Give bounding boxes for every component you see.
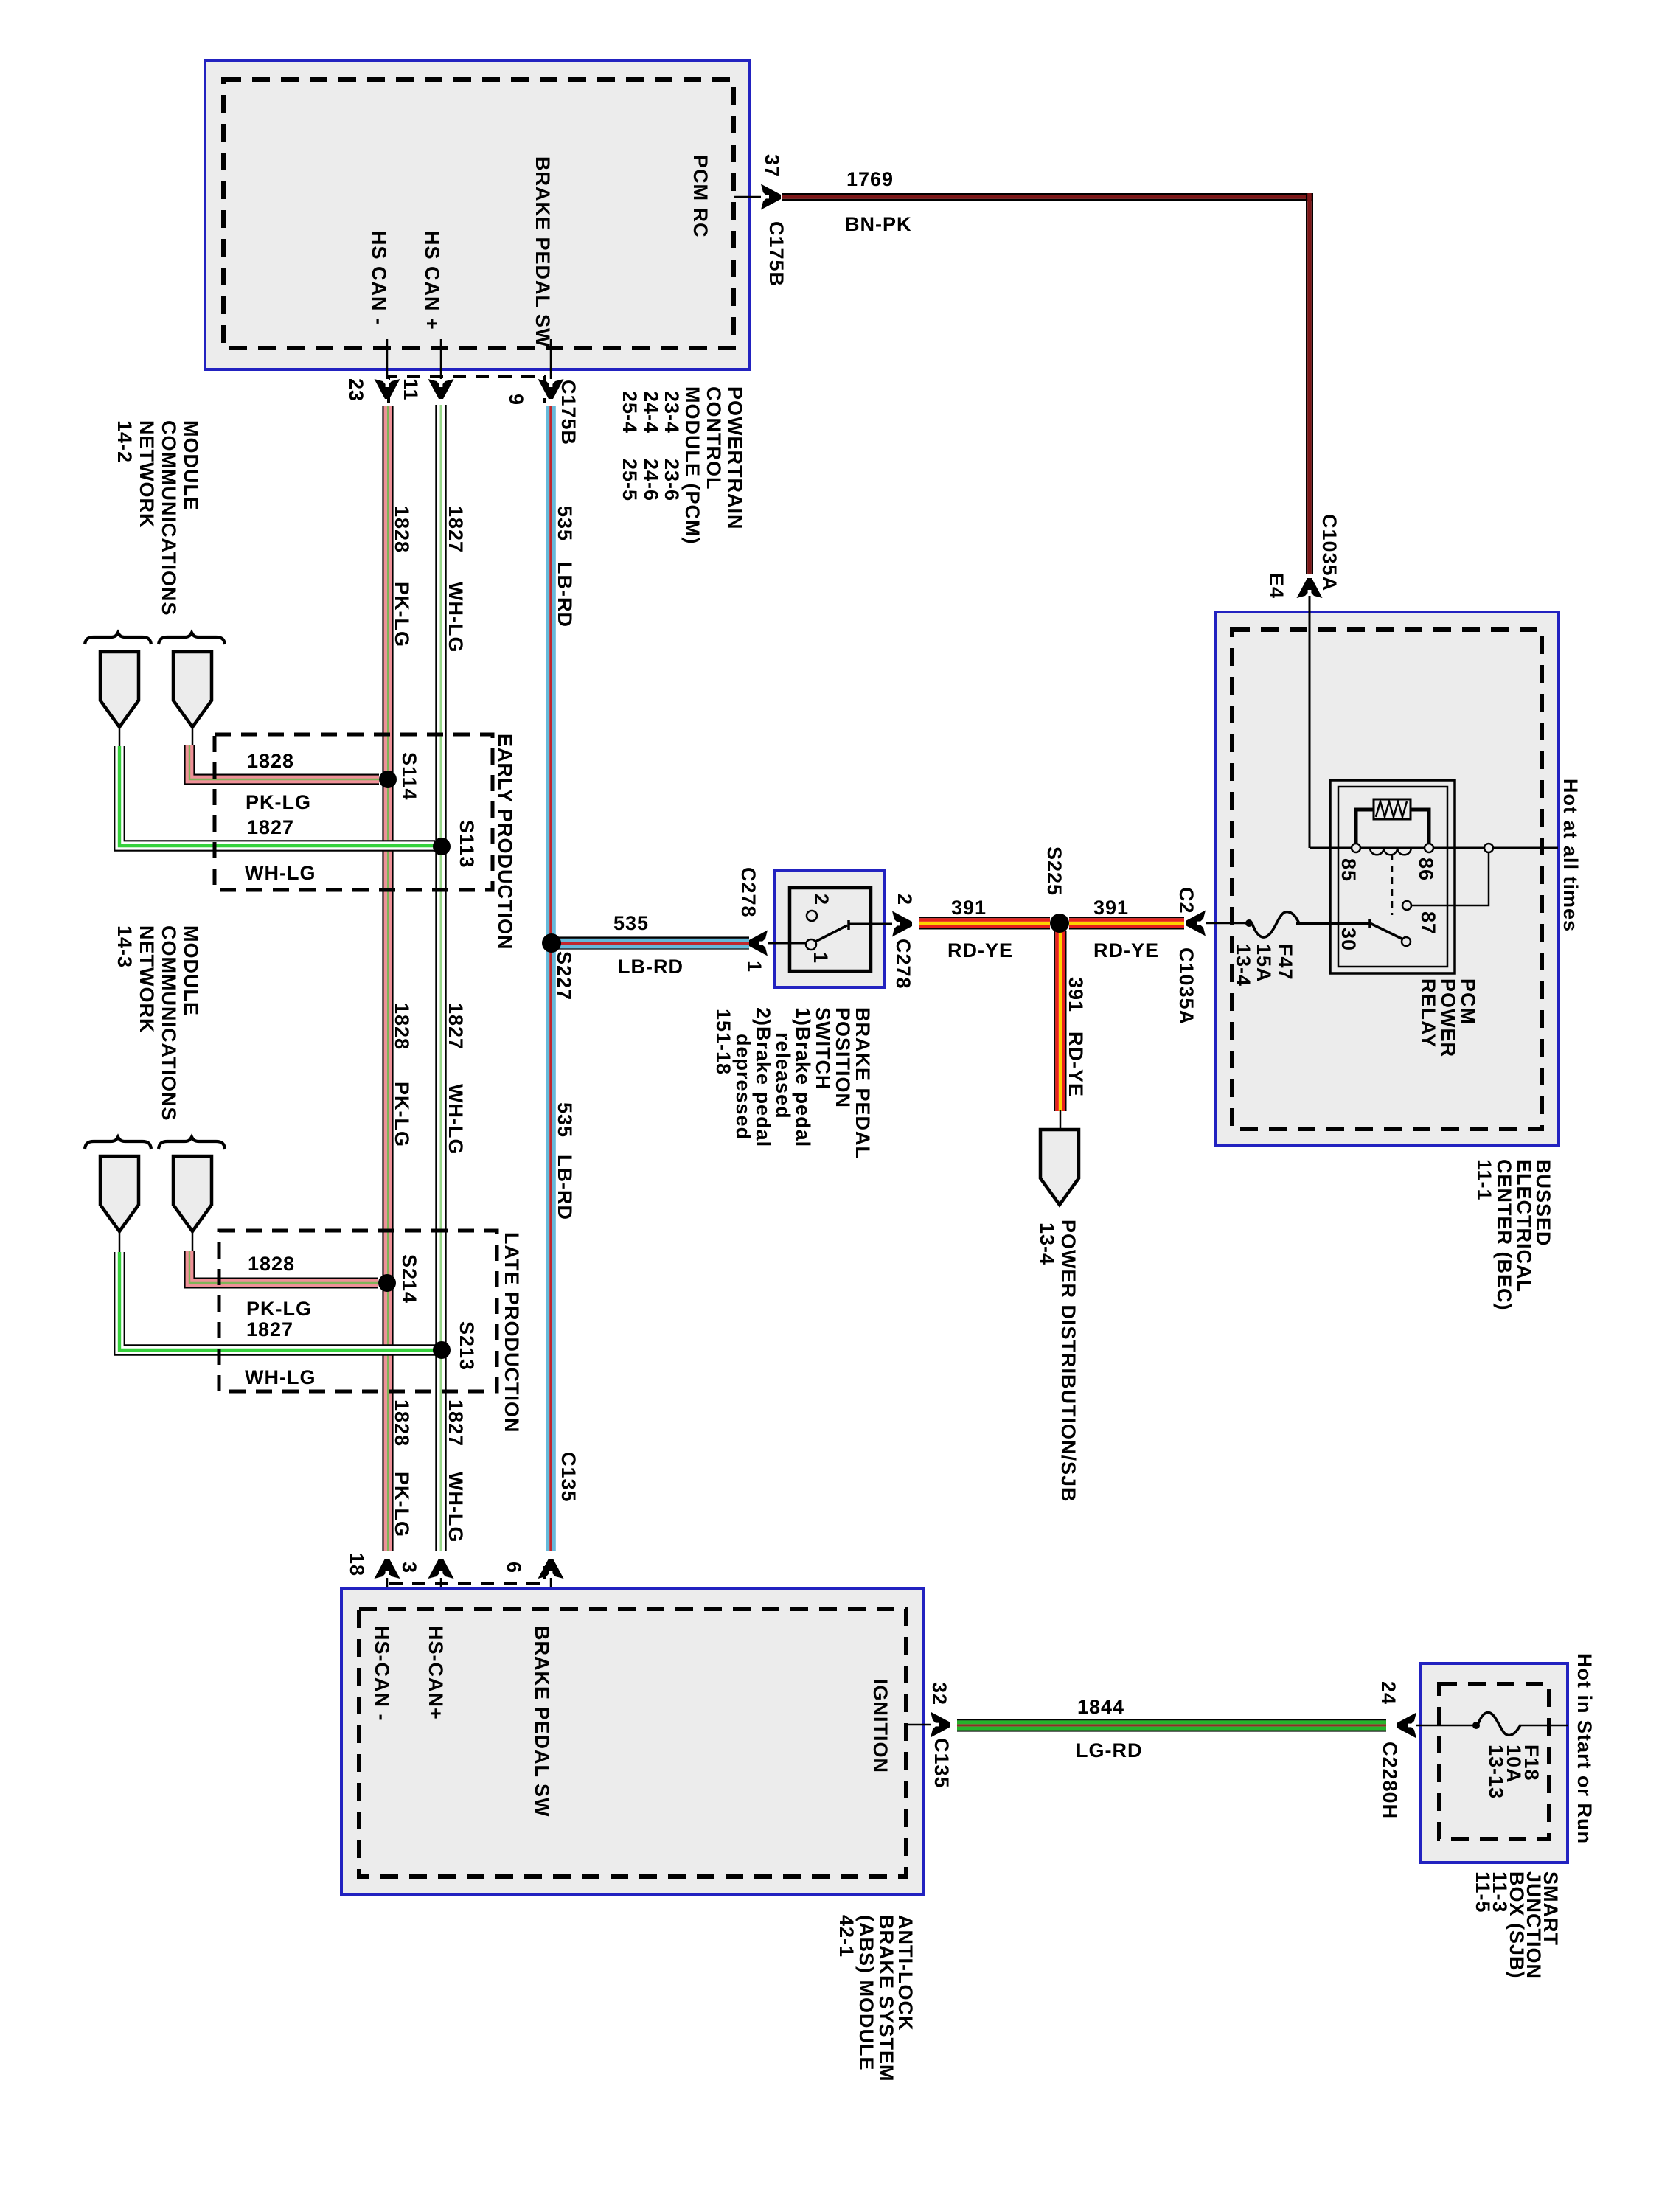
connector C2280H arrow: [1397, 1713, 1416, 1739]
relay coil box: [1374, 799, 1411, 819]
wire 1769 BN-PK horizontal: [782, 193, 1313, 195]
ABS pin 32 lead: [905, 1724, 932, 1726]
svg-text:S214: S214: [398, 1254, 420, 1304]
svg-text:released: released: [772, 1032, 794, 1119]
svg-text:Hot in Start or Run: Hot in Start or Run: [1573, 1653, 1596, 1844]
relay coil lead right: [1411, 810, 1429, 844]
svg-text:87: 87: [1417, 911, 1439, 935]
svg-text:PCM: PCM: [1457, 978, 1479, 1025]
svg-text:PK-LG: PK-LG: [246, 1298, 312, 1320]
svg-text:24-6: 24-6: [640, 459, 662, 501]
connector C175B pin 11 arrow: [428, 379, 454, 399]
svg-text:IGNITION: IGNITION: [869, 1679, 891, 1773]
svg-text:RD-YE: RD-YE: [1093, 939, 1159, 961]
svg-text:32: 32: [928, 1682, 950, 1705]
svg-text:C175B: C175B: [557, 380, 580, 445]
svg-text:3: 3: [398, 1562, 420, 1573]
svg-text:C2280H: C2280H: [1379, 1742, 1401, 1819]
svg-text:1769: 1769: [846, 168, 894, 190]
svg-text:POSITION: POSITION: [832, 1007, 854, 1108]
svg-text:37: 37: [761, 154, 783, 178]
svg-text:RD-YE: RD-YE: [947, 939, 1013, 961]
svg-text:1828: 1828: [247, 750, 294, 772]
network connector symbol B: [173, 652, 212, 727]
connector C135 pin 32 arrow: [931, 1712, 950, 1738]
svg-text:1827: 1827: [445, 1003, 467, 1050]
switch pin 2 lead: [849, 923, 894, 925]
svg-text:C278: C278: [737, 867, 759, 918]
wire 391 RD-YE left segment: [919, 917, 1050, 919]
brace right 14-3: [159, 1137, 225, 1149]
switch pin 1 contact: [806, 939, 816, 950]
splice S214: [378, 1274, 396, 1292]
wire 391 RD-YE vertical: [1054, 931, 1056, 1111]
switch pin 1 lead: [767, 942, 807, 945]
svg-text:1827: 1827: [247, 816, 294, 838]
svg-text:F47: F47: [1274, 944, 1296, 981]
svg-text:18: 18: [346, 1553, 368, 1576]
relay pin 87 terminal: [1402, 901, 1411, 910]
svg-text:C278: C278: [892, 939, 914, 990]
wire 1827 branch to S213: [119, 1252, 435, 1350]
svg-text:CENTER (BEC): CENTER (BEC): [1493, 1159, 1515, 1311]
svg-text:C135: C135: [557, 1452, 580, 1503]
svg-text:535: 535: [554, 1102, 576, 1138]
svg-text:RELAY: RELAY: [1417, 978, 1439, 1048]
bussed electrical center (BEC) box: [1215, 612, 1559, 1146]
svg-text:C1035A: C1035A: [1175, 947, 1197, 1025]
splice S213: [433, 1341, 451, 1359]
svg-text:PK-LG: PK-LG: [391, 1082, 413, 1147]
svg-text:(ABS) MODULE: (ABS) MODULE: [855, 1915, 877, 2070]
svg-text:14-2: 14-2: [114, 420, 136, 463]
svg-text:LATE PRODUCTION: LATE PRODUCTION: [501, 1232, 523, 1433]
svg-text:13-13: 13-13: [1485, 1745, 1507, 1799]
wire 1827 WH-LG vertical: [435, 405, 437, 1551]
svg-text:NETWORK: NETWORK: [136, 925, 158, 1033]
svg-text:RD-YE: RD-YE: [1065, 1032, 1087, 1097]
svg-text:MODULE (PCM): MODULE (PCM): [681, 386, 703, 544]
svg-text:2)Brake pedal: 2)Brake pedal: [752, 1007, 774, 1147]
svg-text:EARLY PRODUCTION: EARLY PRODUCTION: [494, 734, 516, 950]
svg-text:POWER: POWER: [1437, 978, 1459, 1057]
svg-text:HS CAN +: HS CAN +: [421, 231, 443, 330]
svg-text:11-1: 11-1: [1473, 1159, 1495, 1201]
pin 6 lead: [550, 1578, 552, 1610]
svg-text:PK-LG: PK-LG: [246, 791, 311, 813]
svg-text:1828: 1828: [391, 1003, 413, 1050]
connector D lead: [192, 1231, 194, 1252]
tall dashed region top edge: [389, 376, 545, 403]
svg-text:WH-LG: WH-LG: [245, 1366, 316, 1388]
svg-text:535: 535: [613, 912, 649, 934]
svg-text:11-5: 11-5: [1472, 1871, 1494, 1913]
PCM pin 23 lead: [386, 339, 389, 379]
svg-text:NETWORK: NETWORK: [136, 420, 158, 528]
PCM pin 11 lead: [440, 339, 442, 379]
svg-text:HS CAN -: HS CAN -: [368, 231, 390, 325]
relay feed wire from E4: [1309, 596, 1311, 848]
svg-text:24: 24: [1377, 1681, 1399, 1705]
svg-text:SWITCH: SWITCH: [812, 1007, 834, 1090]
fuse F18: [1472, 1722, 1480, 1729]
relay arm contact terminal: [1402, 937, 1411, 946]
svg-text:S225: S225: [1043, 846, 1065, 896]
svg-text:depressed: depressed: [732, 1034, 754, 1140]
connector C278 pin 1 arrow: [748, 931, 768, 956]
svg-text:MODULE: MODULE: [180, 925, 202, 1016]
svg-text:1827: 1827: [246, 1318, 293, 1340]
fuse F47: [1245, 919, 1253, 927]
svg-text:13-4: 13-4: [1232, 944, 1254, 987]
svg-text:BRAKE PEDAL SW: BRAKE PEDAL SW: [532, 156, 554, 348]
svg-text:ELECTRICAL: ELECTRICAL: [1513, 1159, 1535, 1293]
svg-text:13-4: 13-4: [1036, 1222, 1058, 1265]
svg-text:391: 391: [1065, 977, 1087, 1012]
svg-text:S213: S213: [456, 1321, 478, 1371]
network connector symbol A: [100, 652, 139, 727]
relay pin 85 terminal: [1352, 844, 1360, 852]
SJB feed lead: [1416, 1725, 1476, 1727]
connector C1035A E4 arrow: [1297, 578, 1323, 598]
connector C135 pin 6 arrow: [538, 1559, 564, 1579]
svg-text:CONTROL: CONTROL: [703, 386, 725, 490]
svg-text:535: 535: [554, 506, 576, 541]
network connector symbol C: [100, 1156, 139, 1231]
BEC bus line 85-86: [1310, 847, 1558, 849]
connector C135 pin 3 arrow: [428, 1559, 454, 1579]
connector C lead: [119, 1231, 121, 1252]
wire 535 LB-RD vertical: [546, 406, 549, 1551]
svg-text:LG-RD: LG-RD: [1076, 1739, 1142, 1761]
svg-text:S113: S113: [456, 820, 478, 869]
svg-text:BRAKE PEDAL: BRAKE PEDAL: [852, 1007, 874, 1159]
svg-text:1: 1: [810, 952, 832, 964]
svg-text:HS-CAN+: HS-CAN+: [425, 1626, 447, 1720]
svg-text:WH-LG: WH-LG: [245, 862, 316, 884]
svg-text:15A: 15A: [1253, 944, 1275, 983]
wire 1828 branch to S214: [189, 1251, 378, 1283]
svg-text:BRAKE SYSTEM: BRAKE SYSTEM: [875, 1915, 897, 2082]
svg-text:1828: 1828: [391, 506, 413, 553]
svg-text:BRAKE PEDAL SW: BRAKE PEDAL SW: [531, 1626, 553, 1818]
wire 1844 LG-RD: [957, 1719, 1386, 1720]
svg-text:6: 6: [503, 1562, 525, 1573]
connector C135 pin 18 arrow: [375, 1559, 400, 1579]
relay inductor symbol: [1370, 848, 1411, 855]
switch arm: [815, 925, 847, 942]
svg-text:25-5: 25-5: [619, 459, 641, 501]
wire 1828 branch to S114: [189, 745, 379, 779]
svg-text:C175B: C175B: [765, 221, 787, 287]
PCM pin 9 lead: [550, 339, 552, 379]
svg-text:391: 391: [951, 897, 987, 919]
PCM power relay outline: [1330, 780, 1455, 973]
network connector symbol D: [173, 1156, 212, 1231]
svg-text:S227: S227: [553, 951, 575, 1001]
svg-text:LB-RD: LB-RD: [554, 562, 576, 627]
svg-text:1844: 1844: [1077, 1696, 1124, 1718]
svg-text:LB-RD: LB-RD: [618, 956, 684, 978]
connector B lead: [192, 727, 194, 746]
svg-text:HS-CAN -: HS-CAN -: [371, 1626, 393, 1722]
svg-text:1827: 1827: [445, 506, 467, 553]
svg-text:WH-LG: WH-LG: [445, 1084, 467, 1155]
EARLY PRODUCTION dashed box: [215, 734, 493, 890]
wire 535 LB-RD horizontal: [559, 936, 749, 939]
connector C175B pin 9 arrow: [538, 379, 564, 399]
connector A lead: [119, 727, 121, 746]
svg-text:C1035A: C1035A: [1318, 514, 1340, 591]
pin 30 wire: [1296, 922, 1371, 925]
splice S113: [433, 838, 451, 855]
wire 1827 branch to S113: [119, 746, 435, 846]
pin 18 lead: [386, 1578, 389, 1610]
connector C175B pin 37 arrow: [761, 184, 781, 210]
relay actuator dashed link: [1391, 854, 1394, 915]
svg-text:23-4: 23-4: [661, 391, 683, 434]
svg-text:POWERTRAIN: POWERTRAIN: [724, 386, 746, 530]
pin 87 wire: [1411, 852, 1489, 905]
svg-text:PCM RC: PCM RC: [689, 155, 712, 238]
relay switch arm: [1370, 923, 1402, 939]
lead to power distribution: [1060, 1110, 1062, 1131]
svg-text:POWER DISTRIBUTION/SJB: POWER DISTRIBUTION/SJB: [1057, 1220, 1079, 1503]
wire 1769 vertical: [1306, 193, 1307, 574]
switch pin 2 contact: [807, 911, 817, 921]
svg-text:151-18: 151-18: [712, 1009, 734, 1075]
svg-text:2: 2: [810, 894, 832, 905]
splice S227: [542, 933, 561, 953]
svg-text:WH-LG: WH-LG: [445, 582, 467, 653]
svg-text:1)Brake pedal: 1)Brake pedal: [792, 1007, 814, 1147]
svg-text:1828: 1828: [248, 1253, 295, 1275]
svg-text:25-4: 25-4: [619, 391, 641, 434]
svg-text:PK-LG: PK-LG: [391, 1472, 413, 1537]
svg-text:2: 2: [894, 894, 916, 905]
svg-text:42-1: 42-1: [835, 1915, 858, 1958]
PCM pin 37 lead: [734, 196, 761, 198]
svg-text:391: 391: [1093, 897, 1129, 919]
bus junction terminal: [1484, 844, 1493, 852]
svg-text:BN-PK: BN-PK: [845, 213, 912, 235]
svg-text:S114: S114: [398, 752, 420, 801]
wire 391 RD-YE right segment: [1069, 917, 1184, 919]
svg-text:WH-LG: WH-LG: [445, 1472, 467, 1543]
brace left 14-3: [85, 1137, 151, 1149]
splice S225: [1050, 914, 1069, 933]
svg-text:MODULE: MODULE: [180, 420, 202, 511]
relay pin 86 terminal: [1425, 844, 1433, 852]
svg-text:30: 30: [1338, 928, 1360, 951]
smart junction box (SJB): [1421, 1663, 1568, 1863]
power distribution connector symbol: [1040, 1130, 1079, 1205]
svg-text:9: 9: [505, 394, 527, 406]
svg-text:1: 1: [743, 961, 765, 973]
svg-text:1827: 1827: [445, 1399, 467, 1447]
tall dashed region bottom edge: [389, 1562, 545, 1584]
svg-text:C2: C2: [1175, 887, 1197, 914]
svg-text:E4: E4: [1265, 573, 1287, 599]
pin 3 lead: [440, 1578, 442, 1610]
svg-text:1828: 1828: [391, 1399, 413, 1447]
wire 1828 PK-LG vertical: [382, 406, 383, 1551]
svg-text:C135: C135: [931, 1738, 953, 1789]
anti-lock brake system (ABS) module box: [341, 1589, 924, 1895]
svg-text:COMMUNICATIONS: COMMUNICATIONS: [158, 420, 180, 616]
svg-text:11: 11: [400, 378, 422, 401]
brake pedal position switch box: [775, 871, 885, 987]
connector C175B pin 23 arrow: [375, 379, 400, 399]
svg-text:23: 23: [345, 378, 367, 402]
svg-text:23-6: 23-6: [661, 459, 683, 501]
powertrain control module (PCM) box: [205, 60, 750, 369]
connector C278 pin 2 arrow: [892, 911, 912, 937]
relay coil lead left: [1356, 810, 1374, 844]
svg-text:85: 85: [1338, 858, 1360, 882]
svg-text:24-4: 24-4: [640, 391, 662, 434]
svg-text:14-3: 14-3: [114, 925, 136, 968]
svg-text:LB-RD: LB-RD: [554, 1155, 576, 1220]
brace right 14-2: [159, 633, 225, 644]
svg-text:COMMUNICATIONS: COMMUNICATIONS: [158, 925, 180, 1121]
svg-text:Hot at all times: Hot at all times: [1559, 779, 1582, 932]
brace left 14-2: [85, 633, 151, 644]
connector C2 arrow: [1186, 911, 1206, 936]
splice S114: [379, 771, 397, 788]
LATE PRODUCTION dashed box: [219, 1231, 497, 1391]
svg-text:86: 86: [1415, 858, 1437, 881]
svg-text:PK-LG: PK-LG: [391, 582, 413, 647]
